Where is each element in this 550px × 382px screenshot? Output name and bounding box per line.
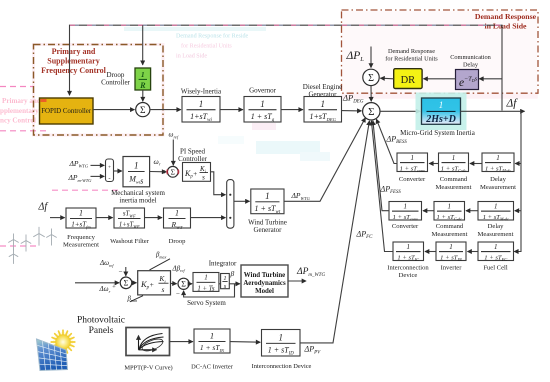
svg-text:Demand Response: Demand Response: [388, 48, 435, 55]
solar panel icon: [37, 339, 68, 371]
wire: main sum to micro-grid inertia block: [380, 110, 420, 112]
svg-text:Panels: Panels: [89, 326, 114, 336]
svg-text:1: 1: [265, 191, 270, 201]
wind turbine icon 1: [8, 234, 18, 251]
sum junction SPI (PI speed): [167, 166, 178, 177]
wire: mech sum to inertia model: [114, 170, 122, 172]
ghost red arcs on PI speed sum: [167, 170, 178, 175]
block: Wind Turbine Aerodynamics Model: [241, 265, 288, 297]
svg-text:Fuel Cell: Fuel Cell: [483, 264, 508, 271]
svg-text:Servo System: Servo System: [187, 299, 226, 307]
wire: Wisely-Inertia to Governor: [220, 109, 243, 111]
svg-text:Command: Command: [440, 176, 468, 183]
svg-text:Delay: Delay: [490, 176, 506, 183]
ghost text row 2 (magenta bleed-through): [181, 43, 232, 50]
wire: Delta P_FESS into main sum: [373, 121, 389, 211]
label: Interconnection Device (FC): [387, 264, 429, 279]
svg-text:1: 1: [448, 202, 452, 210]
svg-text:Washout Filter: Washout Filter: [110, 238, 150, 245]
svg-text:Frequency: Frequency: [67, 234, 96, 241]
svg-text:1: 1: [260, 99, 265, 109]
svg-text:Controller: Controller: [178, 155, 207, 163]
cyan selection halo around inertia block: [416, 93, 467, 131]
junction dot on omega_r wire: [162, 170, 165, 173]
svg-text:for Residential Units: for Residential Units: [385, 55, 438, 62]
svg-text:Generator: Generator: [254, 226, 283, 234]
svg-text:inertia model: inertia model: [119, 197, 156, 205]
wind turbine icon 4: [46, 229, 56, 246]
multiplier block (thin vertical): [227, 180, 234, 229]
wire: delay block to DR block: [424, 78, 456, 80]
label: Primary and Supplementary Frequency Control: [41, 47, 107, 75]
block: servo system 1/(1+Ts): [193, 273, 219, 293]
block: FESS delay measurement 1/(1+sT_M-dc): [478, 202, 514, 222]
svg-text:Wind Turbine: Wind Turbine: [244, 272, 285, 279]
svg-text:Command: Command: [436, 223, 464, 230]
svg-text:β: β: [230, 269, 235, 278]
wire: diesel output Delta P_DEG into main sum: [342, 110, 362, 112]
wire: output branch down the right side to storage chains: [514, 111, 521, 251]
block: PI speed controller Kp+Ki/s: [183, 163, 211, 182]
block: FESS command measurement 1/(1+sT_C-dc): [434, 202, 465, 222]
svg-text:1: 1: [134, 161, 139, 171]
block: MPPT (P-V curve): [126, 328, 170, 356]
svg-text:Converter: Converter: [399, 176, 426, 183]
svg-text:Supplementary: Supplementary: [47, 57, 99, 66]
ghost magenta dash row y86: [0, 86, 34, 88]
sum junction SM (main microgrid power sum): [363, 103, 380, 120]
svg-text:Primary and: Primary and: [2, 97, 41, 105]
wire: Delta P_FC into main sum: [371, 121, 393, 252]
wind turbine icon 2: [21, 235, 31, 252]
svg-text:1: 1: [411, 154, 415, 162]
pink glow strip below demand response box: [341, 94, 538, 99]
svg-text:for Residential Units: for Residential Units: [181, 43, 232, 50]
block: mechanical system inertia model 1/(M_wt s): [123, 157, 150, 187]
svg-text:s: s: [202, 174, 205, 182]
svg-text:Δf: Δf: [38, 202, 49, 213]
svg-text:1: 1: [175, 209, 179, 218]
svg-text:1: 1: [439, 101, 444, 111]
svg-text:1: 1: [279, 332, 284, 342]
svg-text:Measurement: Measurement: [480, 184, 516, 191]
svg-text:Micro-Grid System Inertia: Micro-Grid System Inertia: [400, 129, 476, 137]
svg-text:DR: DR: [401, 75, 416, 86]
block: DC-AC inverter 1/(1+sT_IN): [194, 329, 230, 353]
block: micro-grid system inertia 1/(2Hs+D) (cyan gradient): [422, 98, 461, 125]
ghost magenta dash row y190: [52, 189, 118, 191]
svg-text:1: 1: [141, 70, 145, 79]
svg-text:1: 1: [494, 202, 498, 210]
wire: fuel cell to inverter: [468, 251, 479, 253]
svg-text:1: 1: [494, 243, 498, 251]
svg-text:Model: Model: [255, 288, 274, 295]
wire: S1 to Wisely-Inertia: [150, 109, 181, 111]
svg-text:MPPT(P-V Curve): MPPT(P-V Curve): [124, 364, 172, 371]
svg-text:Device: Device: [399, 272, 418, 279]
block: droop controller 1/R (green): [135, 68, 151, 90]
limit tick beta_min: [130, 296, 143, 302]
wire: Delta omega_ref down into pitch sum: [125, 267, 127, 276]
svg-text:Photovoltaic: Photovoltaic: [77, 316, 125, 326]
sum junction S1 (FOPID + droop): [136, 103, 150, 117]
label: Command Measurement (FESS): [432, 223, 468, 238]
block: communication delay e^-sTd (purple): [456, 70, 479, 90]
label: Frequency Measurement: [63, 234, 99, 249]
svg-text:Σ: Σ: [181, 280, 186, 289]
svg-text:Demand Response: Demand Response: [475, 12, 537, 21]
block: integrator 1/s: [221, 274, 230, 291]
block: PV interconnection device 1/(1+sT_ID): [262, 330, 301, 357]
svg-text:Aerodynamics: Aerodynamics: [243, 280, 286, 287]
wire: right branch into BESS delay measurement: [515, 163, 521, 165]
svg-text:Integrator: Integrator: [209, 259, 237, 267]
label: Demand Response in Load Side: [475, 12, 537, 30]
svg-text:Interconnection Device: Interconnection Device: [252, 363, 312, 370]
svg-text:Measurement: Measurement: [432, 231, 468, 238]
svg-text:Controller: Controller: [101, 79, 130, 87]
svg-text:Measurement: Measurement: [436, 184, 472, 191]
label: Droop Controller: [101, 71, 130, 87]
wire: FOPID output into sum S1: [93, 109, 134, 111]
svg-text:1: 1: [404, 202, 408, 210]
label: Mechanical system inertia model: [111, 189, 165, 205]
svg-text:FOPID Controller: FOPID Controller: [41, 108, 92, 115]
svg-text:Interconnection: Interconnection: [387, 264, 429, 271]
block: frequency measurement 1/(1+sT_fm): [66, 208, 96, 229]
svg-text:2Hs+D: 2Hs+D: [425, 114, 456, 125]
wire: omega_ref down into PI speed sum: [172, 140, 174, 166]
wire: pitch sum to pitch PI: [132, 282, 137, 284]
wire: servo sum to servo system: [189, 283, 192, 285]
wire: delay to command measurement (BESS): [470, 163, 482, 165]
block: BESS command measurement 1/(1+sT_C-dc): [439, 153, 469, 173]
svg-text:Inverter: Inverter: [441, 264, 463, 271]
wire: feedback node into communication delay block: [479, 78, 502, 80]
wire: droop to pitch multiplier: [191, 217, 226, 219]
wire: DC-AC inverter to PV interconnection device: [230, 341, 260, 344]
svg-text:in Load Side: in Load Side: [176, 54, 207, 60]
wire: Delta P_WTG to main sum: [284, 118, 365, 201]
block: FC interconnection device 1/(1+sT_IC): [393, 242, 424, 262]
wire: Delta P_BESS into main sum: [376, 119, 397, 163]
block: wind turbine generator 1/(1+sT_wt): [251, 189, 284, 215]
svg-text:1: 1: [407, 243, 411, 251]
wire: command to converter (FESS): [423, 210, 434, 212]
wire: pitch PI to servo sum: [171, 282, 177, 284]
wire: aerodynamics output: [288, 280, 306, 282]
wire: servo to integrator: [219, 283, 220, 285]
ghost pink text left edge line 1: [2, 97, 41, 105]
wire: servo feedback loop (negative): [184, 284, 235, 297]
wire: Delta P_WTG into mech sum: [91, 164, 105, 166]
svg-text:Primary and: Primary and: [52, 47, 96, 56]
sun icon: [51, 330, 75, 354]
wire: DR sum down into main sum: [370, 86, 372, 102]
svg-text:Communication: Communication: [450, 54, 491, 61]
svg-text:Σ: Σ: [368, 106, 374, 118]
block: pitch controller Kp+Ki/s with limits: [138, 271, 171, 295]
block: Diesel Engine Generator 1/(1+sT_DEG): [304, 97, 342, 123]
ghost magenta dash row y131: [0, 130, 46, 132]
wire: Delta omega_r into pitch sum: [75, 282, 119, 284]
svg-text:Delay: Delay: [488, 223, 504, 230]
demand response in load side dash-dot box: [342, 10, 539, 93]
wire: inverter to interconnection device: [425, 251, 436, 253]
wire: DR block into DR sum: [380, 77, 393, 80]
block: Governor 1/(1+sT_g): [244, 97, 281, 123]
svg-text:Governor: Governor: [249, 87, 276, 95]
wire: 1/R output into sum S1: [142, 90, 144, 101]
block: BESS converter 1/(1+sT_conv): [397, 153, 428, 173]
block: FESS converter 1/(1+sT_conv): [389, 202, 422, 222]
ghost red mark at FOPID corner: [41, 99, 47, 102]
label: Delay Measurement (FESS): [478, 223, 514, 238]
block: FC inverter 1/(1+sT_IN): [436, 242, 466, 262]
svg-text:1: 1: [223, 275, 226, 282]
wire: multiplier to wind turbine generator: [234, 200, 250, 202]
block: BESS delay measurement 1/(1+sT_M-dc): [482, 153, 514, 173]
svg-text:Demand Response for Reside: Demand Response for Reside: [176, 33, 249, 40]
wire: Delta P_L down into DR sum: [370, 47, 372, 68]
wire: Delta P_PV to main sum: [300, 121, 369, 343]
svg-text:ncy Control: ncy Control: [0, 117, 36, 125]
block: DR (yellow): [394, 69, 422, 89]
label: Photovoltaic Panels: [77, 316, 125, 337]
svg-text:+: +: [112, 284, 116, 291]
svg-text:Wisely-Inertia: Wisely-Inertia: [181, 88, 222, 96]
label: Communication Delay: [450, 54, 491, 69]
wire: main frequency feedback (node x502 up, across top, down into FOPID): [70, 25, 503, 110]
ghost pink text left edge line 3: [0, 117, 36, 125]
sum block (+/-) before mechanical inertia model: [106, 159, 114, 182]
block: fuel cell 1/(1+sT_FC): [478, 242, 514, 262]
svg-text:s: s: [162, 285, 165, 294]
label: Diesel Engine Generator: [303, 83, 342, 98]
svg-text:Frequency Control: Frequency Control: [41, 66, 107, 75]
label: Wind Turbine Generator: [248, 219, 287, 235]
wire: right branch into FESS delay measurement: [515, 210, 521, 212]
ghost pink dashes over top feedback line: [70, 24, 501, 26]
sum junction SS (servo): [178, 278, 189, 289]
label: PI Speed Controller: [178, 148, 207, 163]
block: FOPID Controller (gold): [40, 98, 94, 124]
label: Command Measurement (BESS): [436, 176, 472, 191]
label: Demand Response for Residential Units: [385, 48, 438, 63]
svg-text:1: 1: [210, 331, 214, 341]
ghost text row 1 (cyan bleed-through): [176, 33, 249, 40]
ghost pink smudge under governor: [252, 123, 276, 130]
svg-text:−: −: [176, 290, 180, 298]
wire: command to converter (BESS): [429, 163, 438, 165]
wire: omega_r to PI speed sum: [150, 171, 167, 173]
svg-text:Droop: Droop: [107, 71, 125, 79]
svg-text:1: 1: [452, 154, 456, 162]
wire: PI output down into pitch multiplier: [211, 172, 226, 195]
primary and supplementary frequency control dash-dot box: [34, 45, 164, 136]
svg-text:Σ: Σ: [124, 279, 129, 288]
wind turbine icon 5: [9, 249, 18, 264]
block: droop 1/R_WT: [164, 208, 191, 230]
svg-text:1: 1: [199, 99, 204, 109]
wire: washout filter to droop: [145, 217, 163, 219]
svg-text:1: 1: [321, 99, 326, 109]
wire: integrator to aerodynamics model: [229, 283, 240, 285]
sum junction SP (pitch): [120, 277, 132, 289]
svg-text:-: -: [108, 175, 110, 182]
cyan ghost fuzz under top feedback line: [124, 27, 266, 31]
wire: frequency measurement to washout filter: [96, 217, 113, 219]
label: Delay Measurement (BESS): [480, 176, 516, 191]
svg-text:Σ: Σ: [171, 167, 175, 176]
wire: branch from top line down to droop controller 1/R: [142, 25, 144, 65]
svg-text:Measurement: Measurement: [478, 231, 514, 238]
block: washout filter sT_WF/(1+sT_WF): [114, 208, 145, 229]
ghost magenta dash row y246: [0, 245, 40, 247]
wire: MPPT to DC-AC inverter: [170, 341, 193, 343]
svg-text:Delay: Delay: [463, 61, 479, 68]
svg-text:in Load Side: in Load Side: [484, 22, 527, 31]
wire: delay to command measurement (FESS): [466, 210, 478, 212]
svg-text:Σ: Σ: [368, 73, 374, 84]
ghost cyan smudge near multiplier: [218, 136, 330, 161]
ghost text row 3 (magenta bleed-through): [176, 54, 207, 60]
svg-text:Converter: Converter: [392, 223, 419, 230]
svg-text:−: −: [119, 267, 123, 275]
wire: Delta f into frequency measurement: [50, 217, 65, 219]
wind turbine icon 3: [33, 227, 44, 246]
svg-text:1: 1: [449, 243, 453, 251]
svg-text:1: 1: [496, 154, 500, 162]
pink tint inside demand response region: [342, 11, 537, 99]
svg-text:1: 1: [79, 209, 83, 218]
limit tick beta_max: [150, 259, 171, 270]
svg-text:1: 1: [204, 274, 208, 282]
svg-text:Droop: Droop: [169, 238, 187, 245]
wire: Governor to Diesel Engine Generator: [281, 109, 303, 111]
sum junction SDR (demand response): [363, 69, 379, 85]
svg-text:Measurement: Measurement: [63, 242, 99, 249]
svg-text:+: +: [108, 164, 111, 170]
svg-text:DC-AC Inverter: DC-AC Inverter: [191, 364, 234, 371]
svg-text:Σ: Σ: [140, 106, 146, 116]
pink glow around primary control box border: [34, 45, 164, 136]
ghost teal dashes over top feedback line: [75, 24, 501, 26]
svg-text:1 + Ts: 1 + Ts: [197, 285, 215, 292]
wire: inertia block to output Delta f: [461, 110, 525, 112]
ghost pink text left edge line 2: [0, 107, 39, 115]
svg-text:Δf: Δf: [506, 98, 519, 110]
wire: Delta P_m-WTG into mech sum: [91, 175, 105, 177]
block: Wisely-Inertia 1/(1+sT_wi): [182, 97, 220, 123]
svg-text:R: R: [139, 81, 146, 90]
